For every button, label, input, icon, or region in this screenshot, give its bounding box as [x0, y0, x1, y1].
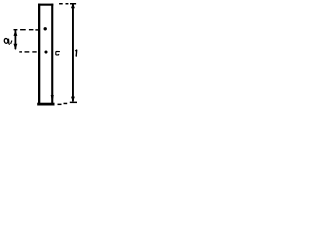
dashed leader line at upper dot level (left side)	[14, 29, 39, 31]
dashed extension line at bar top (right side)	[59, 3, 76, 5]
dimension a top arrowhead (up)	[14, 29, 18, 36]
dimension a bottom arrowhead (down)	[14, 44, 18, 50]
center point (dot c)	[44, 50, 47, 53]
dimension line l (right, vertical full height)	[72, 3, 74, 101]
dimension l bottom arrowhead (down)	[71, 97, 75, 102]
dashed leader line at center dot level (left side)	[19, 51, 36, 52]
label a	[4, 38, 10, 44]
label l	[75, 50, 77, 57]
label a subscript l	[11, 41, 12, 44]
dimension l top arrowhead (up)	[71, 3, 75, 8]
bar outline top edge	[38, 4, 53, 6]
dashed extension line at bar bottom (right side)	[58, 102, 78, 106]
arrowhead on bar right edge (pointing down at bottom)	[51, 95, 54, 103]
dimension line a (left, vertical)	[15, 30, 17, 49]
bar outline bottom edge	[37, 103, 54, 106]
label c	[56, 52, 60, 55]
upper point (dot at distance a above center)	[44, 27, 47, 30]
bar outline right edge	[51, 4, 53, 104]
background	[0, 0, 89, 108]
bar outline left edge	[38, 4, 40, 105]
